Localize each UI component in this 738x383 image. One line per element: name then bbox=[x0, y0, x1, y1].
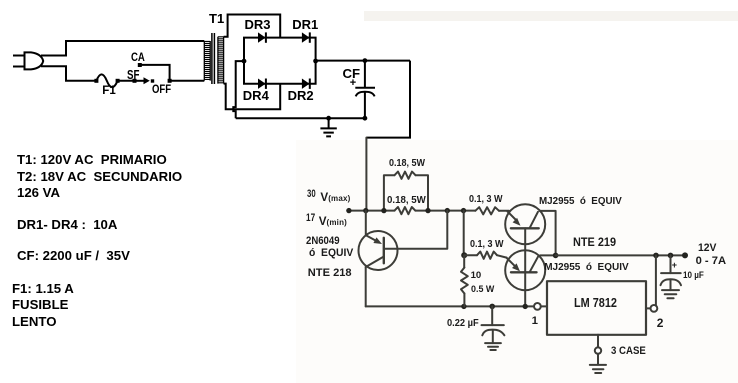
node 0.22uF tap bbox=[489, 304, 495, 310]
wire Q1 base to rail node bbox=[384, 211, 448, 249]
node loop right bbox=[425, 208, 430, 213]
wire fuse to switch pole bbox=[118, 80, 135, 82]
note CF value bbox=[17, 249, 130, 262]
pin 1 terminal bbox=[534, 303, 547, 310]
label R1 value bbox=[389, 159, 425, 169]
label CA bbox=[131, 51, 145, 63]
note T2 secondary bbox=[17, 170, 182, 183]
resistor R5 10 0.5W bbox=[461, 268, 468, 294]
transformer T1 bbox=[204, 33, 223, 84]
wire 10R to bottom rail bbox=[463, 294, 465, 307]
node pin2 riser bbox=[653, 253, 659, 259]
note LENTO bbox=[12, 315, 56, 328]
wire positive rail drop to regulator section bbox=[366, 61, 410, 138]
label 30 Vmax bbox=[307, 189, 316, 200]
bridge rectifier frame bbox=[244, 38, 316, 84]
label C2 plus bbox=[672, 261, 677, 270]
node collectors junction bbox=[553, 253, 559, 259]
node 10uF tap bbox=[668, 253, 674, 259]
diode DR4 bbox=[258, 79, 266, 89]
transistor Q2 MJ2955 upper bbox=[505, 204, 545, 244]
label NTE 219 bbox=[573, 237, 616, 249]
pin 3 terminal and ground bbox=[590, 335, 606, 373]
wire 30V rail segment B bbox=[415, 210, 475, 212]
node 10R riser top bbox=[461, 208, 466, 213]
label o EQUIV Q1 bbox=[309, 248, 353, 259]
label Q2 MJ2955 bbox=[539, 197, 622, 207]
wire rail to Q2 emitter bbox=[499, 210, 509, 212]
node bases to pin1 rail bbox=[523, 304, 528, 309]
resistor R1 0.18 5W parallel bbox=[395, 172, 416, 179]
node bridge right DC+ bbox=[313, 59, 318, 64]
label 17 Vmin bbox=[306, 213, 315, 224]
label DR2 bbox=[288, 89, 314, 102]
label Vmax bbox=[320, 192, 350, 204]
transistor Q1 2N6049 bbox=[359, 231, 398, 270]
wire plug bottom to fuse bbox=[41, 66, 96, 81]
label R4 value bbox=[470, 240, 504, 250]
label T1 bbox=[209, 12, 224, 25]
pin 2 terminal bbox=[646, 255, 657, 311]
node rail input bbox=[346, 208, 351, 213]
faint watermark band bbox=[364, 11, 738, 21]
resistor R2 0.18 5W in rail bbox=[395, 207, 416, 214]
AC plug bbox=[13, 52, 43, 69]
wire 30V rail segment A bbox=[349, 210, 395, 212]
label CF bbox=[343, 67, 361, 80]
wire switch to T1 primary bottom bbox=[170, 80, 205, 82]
node loop left bbox=[381, 208, 386, 213]
wire Q1 collector drop bbox=[365, 267, 367, 306]
label DR3 bbox=[245, 18, 271, 31]
fuse F1 bbox=[94, 74, 119, 87]
label R2 value bbox=[387, 196, 426, 206]
wire Q1 emitter drop bbox=[365, 211, 367, 235]
note F1 value bbox=[12, 282, 74, 295]
diode DR2 bbox=[302, 79, 310, 89]
label C1 value bbox=[447, 319, 479, 329]
diode DR1 bbox=[302, 32, 310, 42]
wire Q3 collector to junction bbox=[540, 254, 555, 256]
node Q1 collector / 10R bottom bbox=[461, 304, 466, 309]
label 12V bbox=[698, 243, 716, 254]
wire branch to 10R bbox=[463, 255, 465, 267]
wire 10R riser bbox=[463, 211, 465, 256]
ground symbol main bbox=[320, 118, 336, 136]
resistor R3 0.1 3W upper bbox=[475, 207, 499, 214]
label DR4 bbox=[243, 89, 269, 102]
switch SF bbox=[133, 63, 155, 84]
wire output rail bbox=[556, 254, 685, 256]
wire ground rail bbox=[236, 117, 365, 119]
note FUSIBLE bbox=[12, 298, 68, 311]
label DR1 bbox=[292, 18, 318, 31]
wire bridge left to ground rail (with crossover jog) bbox=[233, 61, 244, 118]
label F1 bbox=[102, 86, 115, 98]
node CF bottom bbox=[363, 116, 368, 121]
wire bottom rail to LM7812 pin1 bbox=[366, 305, 534, 307]
capacitor CF bbox=[355, 61, 375, 119]
transistor Q3 MJ2955 lower bbox=[505, 250, 545, 290]
label OFF bbox=[152, 85, 171, 97]
wire Q2 collector to junction bbox=[540, 211, 556, 256]
node rail drop bbox=[363, 208, 368, 213]
label pin 1 bbox=[532, 316, 538, 327]
node switch output junction bbox=[168, 79, 172, 83]
regulator U1 LM7812 bbox=[547, 281, 646, 335]
wire parallel loop risers bbox=[384, 175, 428, 210]
label Vmin bbox=[319, 216, 347, 228]
node ground tap bbox=[326, 116, 331, 121]
label Q3 MJ2955 bbox=[544, 263, 628, 273]
scan background tint bbox=[296, 140, 738, 383]
label C2 value bbox=[683, 271, 704, 281]
label R5 value 10 bbox=[471, 271, 482, 281]
wire T1 secondary bottom to bridge AC node bbox=[224, 84, 281, 110]
wire positive rail bbox=[316, 60, 410, 62]
node CF top bbox=[363, 58, 368, 63]
node output terminal bbox=[682, 252, 688, 258]
capacitor C2 10uF bbox=[661, 255, 682, 298]
wire branch to R4 bbox=[464, 254, 477, 256]
label CF plus bbox=[350, 78, 356, 89]
capacitor C1 0.22uF bbox=[482, 306, 505, 350]
wire plug top to T1 primary top bbox=[41, 41, 204, 56]
label 0-7A bbox=[696, 256, 726, 267]
wire common base line bbox=[524, 228, 526, 306]
resistor R4 0.1 3W lower bbox=[477, 252, 497, 259]
label NTE 218 bbox=[308, 268, 352, 279]
label R5 wattage bbox=[471, 285, 494, 295]
note T1 primary bbox=[17, 153, 167, 166]
node base feed bbox=[445, 208, 450, 213]
note DR1-DR4 bbox=[17, 218, 117, 231]
label R3 value bbox=[469, 195, 503, 205]
label pin 2 bbox=[657, 317, 664, 329]
note 126 VA bbox=[17, 186, 60, 199]
label U1 LM7812 bbox=[574, 297, 617, 310]
node lower 0.1 branch bbox=[461, 252, 467, 258]
wire CA contact to line bbox=[140, 65, 170, 81]
wire R4 to Q3 emitter bbox=[497, 255, 507, 257]
label 2N6049 bbox=[306, 236, 340, 247]
label pin 3 CASE bbox=[611, 346, 646, 357]
wire drop continues to 30V rail bbox=[365, 138, 367, 211]
label SF bbox=[127, 69, 139, 82]
wire T1 secondary top to bridge AC node bbox=[224, 15, 281, 38]
diode DR3 bbox=[258, 32, 266, 42]
node bridge left DC- bbox=[242, 59, 247, 64]
